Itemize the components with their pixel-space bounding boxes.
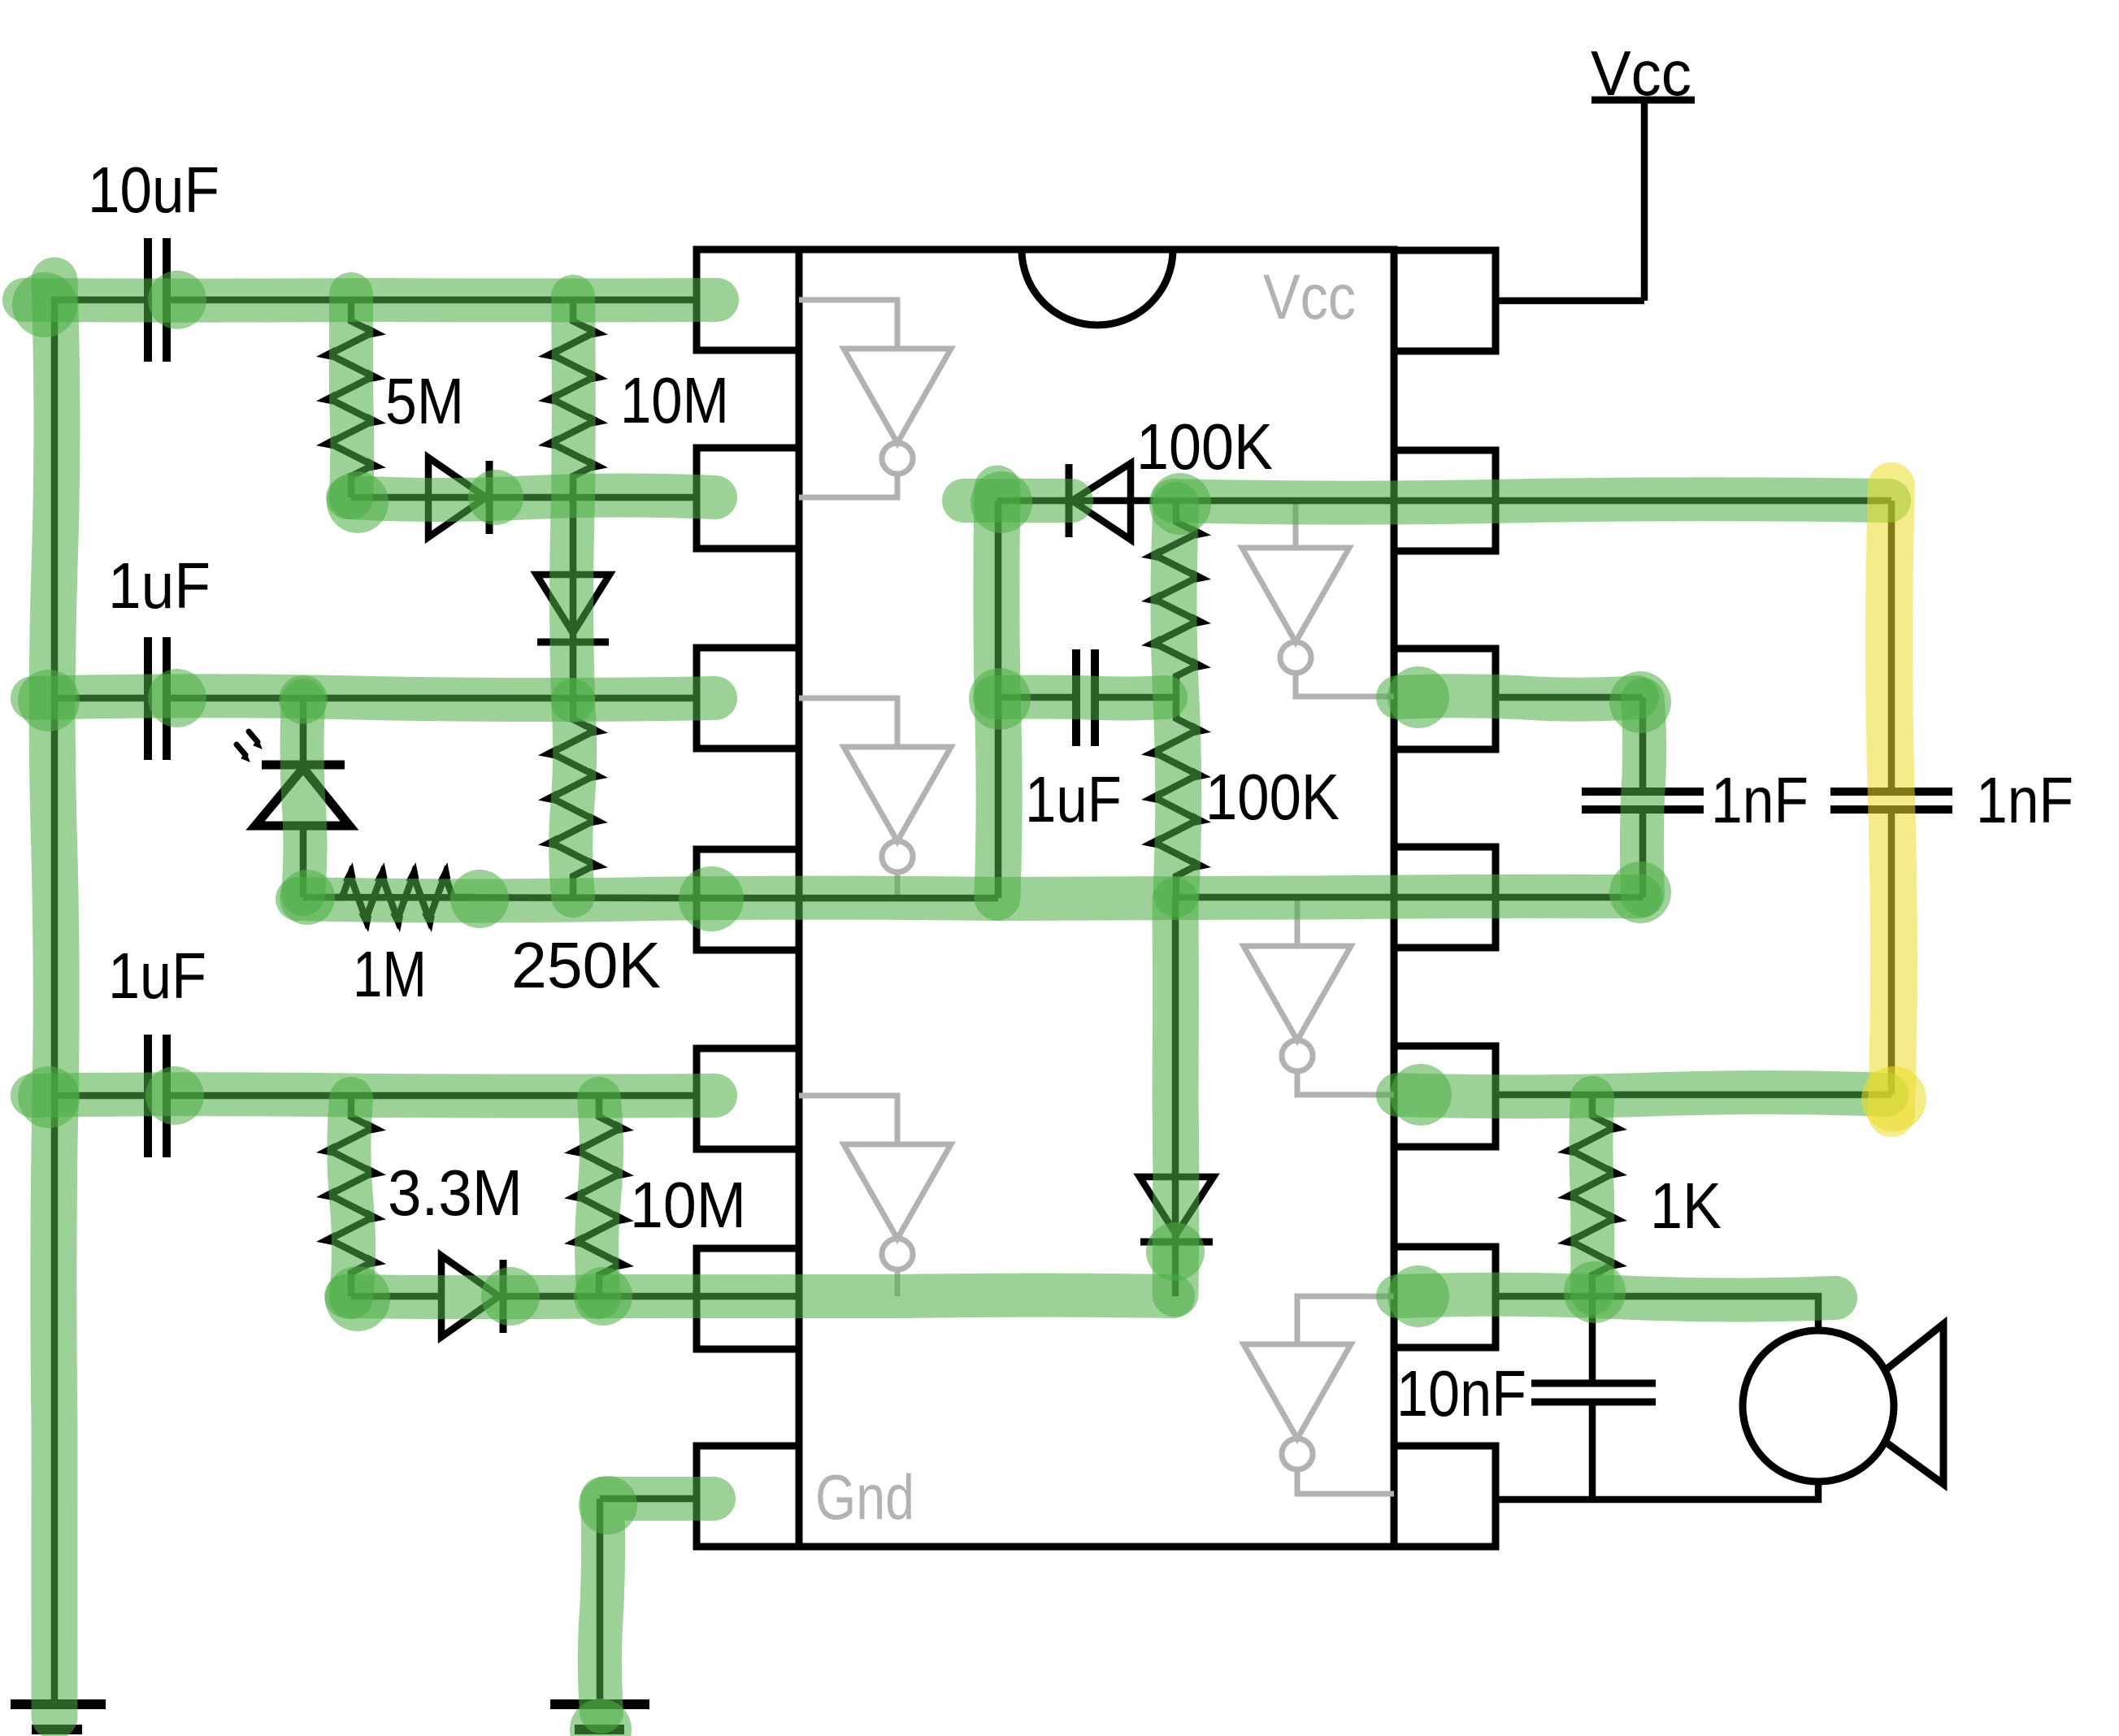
wire: 1uF cap to IC pin 5 <box>167 695 698 702</box>
svg-text:1nF: 1nF <box>1976 764 2073 836</box>
resistor R5 3.3M <box>329 1096 373 1294</box>
highlighter stroke over pin6 row through IC <box>346 1295 1173 1298</box>
highlighter blob at D3 cathode <box>481 1267 540 1326</box>
wire: pin8 bottom row to speaker with bottom stub <box>1496 1481 1818 1499</box>
highlighter blob at R1 corner <box>327 471 389 533</box>
highlighter stroke over R1 5M <box>351 294 352 497</box>
svg-text:Vcc: Vcc <box>1263 261 1356 332</box>
IC U1 pin 9 tab <box>1394 1247 1496 1348</box>
svg-text:100K: 100K <box>1205 761 1340 833</box>
svg-text:Vcc: Vcc <box>1591 37 1691 109</box>
resistor R1 5M <box>329 300 373 497</box>
capacitor C5 1nF plates (left) <box>1582 788 1704 796</box>
highlighter blob at C2 right plate <box>148 669 206 727</box>
wire: 1nF right branch vertical lower <box>1888 809 1895 1095</box>
highlighter blob at D1 cathode <box>468 470 523 525</box>
highlighter blob at R6 bottom <box>574 1267 632 1326</box>
highlighter blob at R9 bottom <box>1564 1261 1626 1323</box>
photodiode PD1 symbol <box>262 761 345 770</box>
svg-text:1K: 1K <box>1650 1170 1722 1242</box>
svg-text:250K: 250K <box>511 929 661 1001</box>
svg-text:1uF: 1uF <box>1025 763 1122 835</box>
highlighter stroke over pin12 row <box>1398 696 1637 699</box>
wire: ground stem GND2 <box>597 1499 604 1704</box>
wire: pin7 row from IC pin 7 tab to ground stem <box>600 1495 698 1503</box>
highlighter stroke over C4 row <box>995 697 1166 699</box>
wire: pin2 row from R1 corner through D1 to IC pin 3 <box>351 494 698 501</box>
highlighter blob at GND2 <box>570 1699 632 1736</box>
highlighter blob at D4 corner <box>970 471 1032 533</box>
highlighter blob at R3 right end <box>450 870 509 928</box>
svg-text:1uF: 1uF <box>108 940 206 1012</box>
diode D2 (pointing down) between pin2 row and pin3 row <box>570 497 577 698</box>
highlighter stroke over vertical to pin4 row <box>997 488 999 897</box>
wire: vertical from pin11 row down through D5 to pin6 row <box>1172 897 1179 1296</box>
highlighter blob at pin9 tab <box>1387 1265 1449 1327</box>
resistor R8 100K (lower) <box>1154 697 1198 897</box>
highlighter stroke over pin5 row <box>33 1094 715 1096</box>
ground symbol GND2 <box>550 1699 649 1709</box>
IC U1 pin 1 tab <box>697 250 799 350</box>
highlighter stroke over R2 10M and D2 <box>571 297 574 701</box>
wire: pin4 row with R3, from PD1 to IC pin 4 tab <box>303 897 698 898</box>
highlighter blob at pin4 tab entry <box>679 866 744 931</box>
wire: pin11 row from R8 junction through IC to 1nF branch <box>1176 894 1643 901</box>
capacitor C7 10nF plates <box>1531 1380 1656 1387</box>
IC U1 pin 11 tab <box>1394 847 1496 948</box>
highlighter blob at D5 bar <box>1146 1222 1205 1281</box>
photodiode PD1 light arrows <box>249 731 258 742</box>
resistor R2 10M <box>551 300 595 497</box>
wire: PD1 anode down to 1M row <box>300 826 307 897</box>
svg-text:10M: 10M <box>630 1169 746 1241</box>
wire: vertical from D4 corner down to pin4 row <box>995 501 1002 898</box>
resistor R3 1M (horizontal) <box>321 875 474 919</box>
capacitor C4 1uF plates <box>1072 649 1080 746</box>
svg-text:3.3M: 3.3M <box>388 1157 523 1229</box>
svg-text:10M: 10M <box>620 364 729 436</box>
diode D4 (pointing left) on pin13 row <box>1066 464 1073 537</box>
highlighter stroke over R6 10M <box>597 1099 601 1297</box>
highlighter stroke over R4 250K <box>571 701 575 896</box>
highlighter yellow stroke over 1nF right branch <box>1889 486 1894 1113</box>
highlighter blob at C5 top corner <box>1609 671 1671 733</box>
highlighter stroke over pin7 ground path <box>600 1499 714 1712</box>
IC U1 pin 3 tab <box>697 648 799 749</box>
highlighter blob at rail pin3 junction <box>18 670 80 731</box>
highlighter blob at pin10 tab <box>1390 1064 1452 1126</box>
wire: 1nF right branch vertical upper <box>1888 501 1895 792</box>
highlighter stroke over R9 1K <box>1591 1098 1592 1293</box>
diode D1 (pointing right) <box>428 458 486 537</box>
inverter U1B (pin3 to pin4) <box>799 698 951 898</box>
highlighter blob at R7 top junction <box>1149 473 1211 535</box>
IC U1 body (hex inverter) <box>799 250 1394 1547</box>
wire: pin1 row from rail to 10uF cap <box>54 297 146 304</box>
highlighter blob at C4 left junction <box>969 668 1031 730</box>
diode D5 (pointing down) <box>1140 1177 1214 1235</box>
IC U1 pin 12 tab <box>1394 649 1496 749</box>
svg-text:1uF: 1uF <box>108 549 211 622</box>
IC U1 pin 6 tab <box>697 1248 799 1349</box>
highlighter stroke over left rail <box>52 280 57 1716</box>
svg-text:100K: 100K <box>1136 410 1273 483</box>
speaker SP1 horn <box>1884 1324 1943 1484</box>
highlighter blob at rail top corner <box>12 272 77 337</box>
highlighter yellow blob at bottom corner <box>1861 1066 1926 1131</box>
inverter U1C (pin5 to pin6) <box>799 1096 951 1296</box>
highlighter stroke over R5 3.3M <box>349 1099 354 1297</box>
inverter U1D (pin13 to pin12) <box>1242 501 1394 697</box>
wire: pin6 row from D3 through IC to D6 corner <box>503 1293 1175 1300</box>
highlighter stroke over C5 branch <box>1642 700 1644 895</box>
highlighter blob at C5 bottom corner <box>1609 861 1671 923</box>
highlighter stroke over D5 vertical <box>1153 901 1200 1294</box>
highlighter stroke over pin10 row <box>1398 1092 1887 1096</box>
capacitor C1 10uF plates <box>144 238 152 362</box>
highlighter stroke over pin2 row <box>348 496 715 500</box>
wire: 1nF left branch vertical upper <box>1639 697 1647 792</box>
IC U1 pin 2 tab <box>697 448 799 549</box>
IC U1 pin 14 tab <box>1394 250 1496 351</box>
svg-text:Gnd: Gnd <box>815 1461 914 1533</box>
highlighter stroke left of D4 <box>964 479 1071 523</box>
capacitor C2 1uF plates <box>144 637 152 760</box>
wire: 10nF vertical upper <box>1589 1296 1596 1384</box>
highlighter blob at PD1 corner <box>280 870 335 925</box>
wire: C4 row from vertical to R7/R8 junction <box>998 694 1075 701</box>
svg-text:10nF: 10nF <box>1396 1357 1526 1430</box>
wire: left vertical rail from C1 down to ground <box>51 297 59 1704</box>
capacitor C3 1uF plates <box>144 1035 152 1157</box>
inverter U1E (pin11 to pin10) <box>1244 897 1394 1095</box>
svg-text:10uF: 10uF <box>88 154 219 226</box>
highlighter stroke over pin3 row <box>33 696 715 700</box>
highlighter blob at C3 right plate <box>145 1066 204 1125</box>
wire: pin10 row out to 1nF right branch corner <box>1496 1092 1891 1099</box>
inverter U1A (pin1 to pin2) <box>799 300 951 497</box>
resistor R7 100K (upper) <box>1154 501 1198 697</box>
diode D3 (pointing right) on pin6 row <box>441 1256 499 1337</box>
IC U1 pin 8 tab <box>1394 1446 1496 1547</box>
wire: 1nF left branch vertical lower <box>1639 809 1647 897</box>
IC U1 pin 5 tab <box>697 1048 799 1149</box>
svg-text:5M: 5M <box>385 365 464 437</box>
wire: R5 corner to D3 <box>348 1294 355 1296</box>
wire: pin3 row from rail to 1uF cap <box>54 695 146 702</box>
Vcc power symbol underline <box>1591 97 1695 104</box>
highlighter stroke over R7 R8 100K chain <box>1174 505 1179 894</box>
highlighter stroke over pin13 row <box>1173 499 1889 502</box>
resistor R6 10M between pin5 row and pin6 row <box>577 1096 621 1296</box>
highlighter blob at PD1 top <box>279 675 328 724</box>
highlighter stroke over photodiode branch <box>302 701 306 894</box>
highlighter blob at pin12 tab <box>1387 666 1449 728</box>
wire: pin13 row from corner through D4 and IC to 1nF branch <box>997 497 1891 505</box>
resistor R9 1K between pin10 row and pin9 row <box>1570 1095 1614 1296</box>
svg-text:1M: 1M <box>353 938 427 1010</box>
highlighter blob at rail pin5 junction <box>18 1066 80 1128</box>
inverter U1F (pin9 to pin8) <box>1244 1296 1394 1494</box>
photodiode PD1 cathode stub <box>300 698 307 765</box>
highlighter stroke over pin4 row long wire <box>297 896 1640 901</box>
svg-text:1nF: 1nF <box>1711 764 1809 836</box>
IC U1 pin 10 tab <box>1394 1046 1496 1147</box>
resistor R4 250K between pin3 row and pin4 row <box>551 698 595 897</box>
IC U1 notch semicircle <box>1022 250 1173 325</box>
IC U1 pin 4 tab <box>697 849 799 950</box>
speaker SP1 body circle <box>1743 1330 1894 1482</box>
wire: pin14 row to Vcc branch <box>1496 297 1644 305</box>
highlighter blob at R5 corner <box>325 1266 390 1331</box>
wire: 10nF vertical lower <box>1589 1402 1596 1499</box>
wire: pin9 row out to speaker with top stub <box>1496 1296 1818 1331</box>
wire: 1uF cap to IC pin 5 tab (row 5) <box>167 1092 698 1100</box>
IC U1 pin 13 tab <box>1394 450 1496 551</box>
highlighter blob at C1 right plate <box>148 271 206 329</box>
wire: Vcc vertical <box>1641 100 1648 301</box>
IC U1 pin 7 tab <box>697 1446 799 1547</box>
wire: pin4 row inside IC from pin4 tab to corner <box>698 895 998 902</box>
highlighter stroke over pin9 row <box>1398 1295 1835 1300</box>
highlighter blob at pin7 corner <box>579 1476 637 1534</box>
wire: pin5 row from rail to 1uF cap <box>54 1092 146 1100</box>
ground symbol GND1 at bottom of left rail <box>11 1699 106 1709</box>
wire: pin12 row to 1nF left branch <box>1496 694 1643 701</box>
capacitor C6 1nF plates (right) <box>1830 788 1952 796</box>
wire: 10uF cap to IC pin 1 <box>167 297 698 304</box>
highlighter stroke over pin1 row <box>24 278 717 323</box>
